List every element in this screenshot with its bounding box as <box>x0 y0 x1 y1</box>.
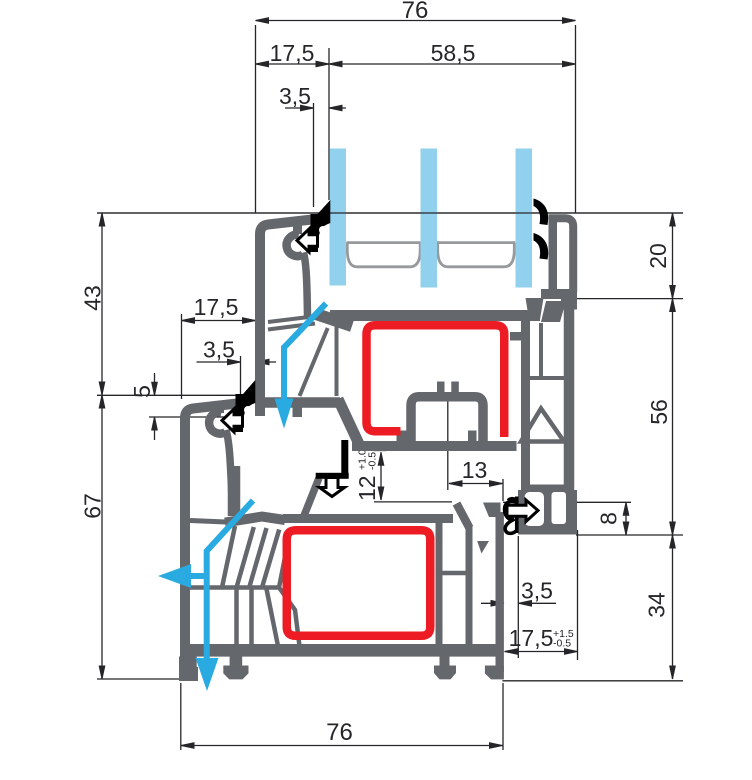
glazing gasket black top left <box>311 214 319 252</box>
dimension 17,5 top <box>256 40 330 67</box>
frame support stem <box>226 430 232 500</box>
dimension 34 right <box>644 535 676 679</box>
sash bottom right closing <box>541 289 577 299</box>
frame foot 3 <box>440 655 450 666</box>
svg-text:43: 43 <box>80 285 106 311</box>
frame upstand divider <box>528 376 565 380</box>
sash underside web lines <box>268 316 317 330</box>
svg-text:3,5: 3,5 <box>279 83 311 109</box>
sash interior webs <box>300 325 337 396</box>
frame bead hook <box>209 412 225 434</box>
extension lines <box>97 25 683 750</box>
glass pane 3 <box>516 149 533 288</box>
glazing spacer right <box>437 243 515 267</box>
sash interlock trapezoid <box>526 298 544 320</box>
groove teeth <box>437 382 445 395</box>
frame upstand foot block <box>518 490 577 535</box>
screw boss left wall <box>457 504 470 529</box>
blue arrow lower <box>207 501 253 660</box>
glazing gaskets black right <box>534 199 549 226</box>
sash bottom left face <box>258 397 340 408</box>
svg-text:67: 67 <box>80 493 106 519</box>
sash underside wedge <box>316 314 352 326</box>
frame left foot <box>179 667 198 681</box>
svg-text:76: 76 <box>326 719 353 746</box>
dimension 17,5 +1.5/-0.5 bottom right <box>505 625 578 654</box>
frame chamber vertical web right <box>436 521 443 649</box>
svg-text:20: 20 <box>645 243 671 269</box>
center gasket vertical <box>341 440 348 477</box>
frame chamber webs <box>187 526 300 646</box>
blue arrow lower left branch <box>190 573 207 579</box>
svg-text:-0.5: -0.5 <box>367 452 379 470</box>
frame upstand tab <box>510 332 521 341</box>
svg-text:56: 56 <box>646 399 672 425</box>
euro groove hat <box>411 397 483 446</box>
frame bottom bar <box>186 644 503 657</box>
screw boss right block <box>483 503 501 518</box>
frame foot 2 <box>230 655 243 666</box>
svg-text:12: 12 <box>354 475 380 501</box>
dimension 76 top <box>256 0 576 24</box>
frame center rib <box>304 478 320 517</box>
svg-text:17,5: 17,5 <box>270 40 315 66</box>
dimension 17,5 left lower <box>182 294 256 323</box>
frame upstand triangle web <box>521 409 564 442</box>
svg-text:8: 8 <box>596 512 622 525</box>
frame bead gasket black <box>236 394 244 432</box>
svg-text:5: 5 <box>129 385 155 398</box>
sash bottom tab <box>293 404 303 417</box>
dimension 8 right <box>596 502 629 535</box>
frame upstand mid web <box>539 323 543 378</box>
frame upstand outer wall <box>564 306 575 500</box>
svg-text:13: 13 <box>462 457 488 483</box>
extension line over glass <box>97 212 683 214</box>
sash glass-side right wall <box>549 218 558 292</box>
frame rebate thin edge <box>190 521 226 523</box>
frame foot right <box>485 666 504 680</box>
frame gasket right omega <box>505 497 517 534</box>
sash bottom diagonal connector <box>338 399 359 444</box>
svg-text:34: 34 <box>644 592 670 618</box>
dimension 5 left <box>129 373 157 440</box>
dimension 3,5 bottom right <box>481 578 556 607</box>
groove tabs pointing left <box>397 431 407 442</box>
frame chamber divider right <box>436 571 471 576</box>
frame top bar <box>283 514 453 523</box>
dimension 58,5 top <box>329 40 576 67</box>
glazing spacer left <box>346 243 421 267</box>
frame lower right wall <box>496 512 504 672</box>
dimension 3,5 top <box>279 83 346 111</box>
svg-text:76: 76 <box>402 0 429 24</box>
svg-text:3,5: 3,5 <box>521 578 553 604</box>
blue arrow upper <box>284 304 326 399</box>
frame upstand inner wall <box>521 318 530 532</box>
svg-text:3,5: 3,5 <box>203 337 235 363</box>
frame foot left <box>179 657 197 680</box>
dimension 76 bottom <box>181 719 503 748</box>
hollow arrow frame bead <box>222 409 243 432</box>
frame bead support column <box>228 466 241 516</box>
frame upstand top corner <box>561 299 577 310</box>
dimension 20 right <box>645 213 675 299</box>
red steel reinforcement frame <box>287 530 431 636</box>
frame upstand lower divider <box>523 485 570 491</box>
dimension 56 right <box>646 299 675 536</box>
dimension 43 left <box>80 213 106 395</box>
glass pane 1 <box>330 149 347 286</box>
sash lower chamber top bar <box>330 310 540 321</box>
sash glass support stem <box>304 253 308 317</box>
svg-text:58,5: 58,5 <box>431 40 476 66</box>
dimension 67 left <box>80 395 106 679</box>
frame upstand lip <box>541 301 566 322</box>
sash glazing bead hook <box>287 234 303 256</box>
hollow arrow right <box>507 500 538 522</box>
sash bottom center face <box>352 441 517 451</box>
dimension 13 center <box>449 457 503 486</box>
svg-text:-0.5: -0.5 <box>553 638 571 650</box>
dimension 12 with tolerance <box>354 449 384 501</box>
screw boss spike <box>477 541 489 554</box>
dimension 3,5 left lower <box>197 337 277 365</box>
sash top right bar and outer wall <box>549 218 574 292</box>
hollow arrow glass left <box>297 229 318 252</box>
hollow arrow down center <box>320 478 345 497</box>
frame top slope <box>225 517 285 523</box>
frame left outer wall and bead top bar <box>185 404 237 671</box>
red steel reinforcement sash <box>367 325 505 437</box>
svg-text:17,5: 17,5 <box>194 294 239 320</box>
glass pane 2 <box>421 149 438 288</box>
svg-text:17,5: 17,5 <box>509 625 554 651</box>
sash left wall and top bar <box>260 220 312 417</box>
center gasket foot <box>316 473 349 479</box>
